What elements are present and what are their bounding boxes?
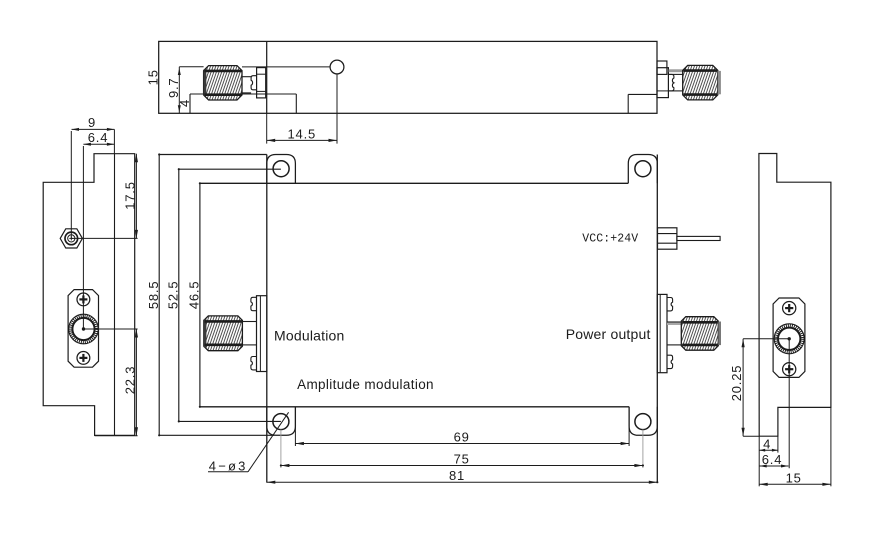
ext line right edge down: [830, 407, 832, 486]
barrel top: [242, 76, 251, 78]
ext line SMA center horizontal: [84, 328, 138, 330]
dimension 6.4: [759, 465, 788, 467]
svg-text:58.5: 58.5: [146, 281, 161, 310]
nut face line bottom: [682, 344, 717, 347]
svg-text:4: 4: [763, 436, 771, 451]
VCC pin: [677, 236, 720, 240]
bracket outline 58.5: [158, 155, 160, 436]
svg-text:69: 69: [454, 430, 470, 445]
top view cavity line right part: [242, 66, 330, 68]
nut face line top: [682, 321, 717, 324]
bracket outline 46.5: [199, 183, 201, 406]
ext line SMA center horizontal: [743, 338, 789, 340]
screw boss notch shape: [251, 76, 257, 90]
bracket outline 52.5: [178, 169, 180, 421]
knurl outer circle: [69, 314, 99, 344]
top-right mounting ear: [628, 155, 657, 184]
dimension 4: [759, 449, 778, 451]
svg-text:75: 75: [454, 452, 470, 467]
nut body hatched: [204, 316, 243, 351]
nut face line top: [205, 320, 242, 323]
bottom-left ear hole: [273, 414, 289, 430]
bottom-right ear hole: [635, 414, 651, 430]
screw boss top: [251, 297, 257, 310]
VCC feedthrough block: [658, 228, 677, 249]
dimension 17.5: [135, 154, 137, 239]
screw boss bottom: [667, 355, 673, 368]
svg-text:15: 15: [145, 69, 160, 85]
bottom-right mounting ear: [629, 407, 657, 436]
dimension 9: [72, 128, 115, 130]
dimension 6.4: [83, 143, 114, 145]
top view right step top edge: [628, 93, 657, 95]
knurl inner bold circle: [778, 328, 800, 350]
svg-text:6.4: 6.4: [762, 452, 782, 467]
screw top: [783, 302, 796, 315]
front view right SMA connector (Power output): [657, 294, 721, 372]
connector flange obround: [68, 290, 98, 368]
flange inner line: [259, 296, 261, 372]
barrel bottom: [667, 344, 681, 346]
top view left SMA connector: [204, 66, 266, 100]
top view hole circle: [330, 60, 344, 74]
left view face line: [114, 154, 116, 436]
extension line 14.5 left: [266, 113, 268, 143]
flange plate: [257, 68, 266, 98]
ext line left edge down: [758, 436, 760, 486]
screw bottom: [77, 352, 90, 365]
front view left SMA connector (Modulation): [204, 296, 267, 372]
svg-text:Power output: Power output: [566, 326, 651, 342]
ext line SMA center vertical: [788, 339, 790, 468]
top-right ear hole: [635, 161, 651, 177]
flange plate: [657, 294, 667, 372]
body top edge: [200, 182, 628, 184]
top view left step right edge: [295, 94, 297, 113]
svg-text:14.5: 14.5: [288, 126, 317, 141]
top-left mounting ear: [267, 155, 296, 184]
right view SMA connector face: [773, 298, 805, 377]
barrel top: [667, 321, 681, 323]
nut body hatched: [681, 317, 718, 351]
dimension 22.3: [135, 329, 137, 436]
ext line SMA center vertical: [82, 146, 84, 329]
flange step upper: [657, 61, 667, 74]
dimension 9.7 line: [178, 67, 180, 114]
top view cavity line left part: [179, 66, 203, 68]
nut body hatched: [683, 65, 718, 100]
nut face line bottom: [684, 93, 718, 96]
screw top: [77, 293, 90, 306]
svg-text:Amplitude modulation: Amplitude modulation: [297, 377, 434, 392]
body left edge + ears + ext 81: [266, 155, 268, 483]
top view left step top edge: [190, 93, 296, 95]
svg-text:22.3: 22.3: [123, 366, 138, 395]
dimension 14.5: [267, 139, 337, 141]
right view stepped plate outline: [759, 154, 831, 437]
ext line hex center horizontal: [71, 237, 137, 239]
body right edge + ears + ext 81: [656, 155, 658, 483]
svg-text:4: 4: [177, 99, 192, 107]
svg-text:20.25: 20.25: [729, 365, 744, 402]
dimension 81: [267, 481, 658, 483]
dimension 69: [294, 407, 296, 446]
svg-text:Modulation: Modulation: [274, 328, 345, 344]
svg-text:6.4: 6.4: [88, 130, 108, 145]
barrel top: [242, 321, 256, 323]
barrel top: [668, 73, 682, 75]
flange plate: [257, 296, 267, 372]
svg-text:17.5: 17.5: [123, 181, 138, 210]
screw boss notch shape: [668, 74, 674, 91]
nut body hatched: [204, 66, 242, 100]
left view stepped plate outline: [43, 154, 135, 436]
nut face line bottom: [204, 93, 241, 96]
bottom-left mounting ear: [267, 407, 296, 436]
svg-text:81: 81: [449, 468, 465, 483]
ext line hex center vertical: [70, 131, 72, 238]
top view left step left edge / dim 4 line: [189, 94, 191, 113]
barrel bottom: [242, 92, 251, 94]
ext line step down: [777, 436, 779, 452]
screw bottom: [783, 363, 796, 376]
screw boss top: [667, 298, 673, 311]
knurl inner bold circle: [72, 318, 94, 340]
ext line plate bottom: [95, 435, 138, 437]
ext line plate bottom left: [743, 435, 759, 437]
flange inner line: [659, 294, 661, 372]
top view body left wall: [266, 41, 268, 113]
dimension 75: [280, 429, 282, 468]
nut face line top: [684, 69, 718, 72]
svg-text:9.7: 9.7: [166, 78, 181, 98]
top view outer outline: [159, 41, 657, 113]
svg-text:VCC:+24V: VCC:+24V: [582, 232, 638, 245]
connector flange obround: [773, 298, 805, 377]
extension line 14.5 right: [336, 74, 338, 144]
barrel bottom: [668, 90, 682, 92]
top view right SMA connector: [657, 61, 721, 100]
nut face line bottom: [205, 343, 242, 346]
svg-text:46.5: 46.5: [187, 281, 202, 310]
screw boss bottom: [251, 357, 257, 370]
top view right step left edge: [627, 94, 629, 113]
dimension 20.25: [742, 339, 744, 436]
svg-text:15: 15: [786, 470, 802, 485]
svg-text:9: 9: [88, 115, 96, 130]
flange plate: [657, 68, 668, 98]
svg-text:4−ø3: 4−ø3: [209, 458, 248, 473]
knurl outer circle: [774, 324, 804, 354]
barrel bottom: [242, 344, 256, 346]
nut face line top: [204, 70, 241, 73]
svg-text:52.5: 52.5: [166, 281, 181, 310]
top-left ear hole: [273, 161, 289, 177]
dimension 15: [759, 483, 831, 485]
body bottom edge: [200, 406, 629, 408]
hex standoff: [60, 229, 82, 248]
left view SMA connector face: [68, 290, 98, 368]
